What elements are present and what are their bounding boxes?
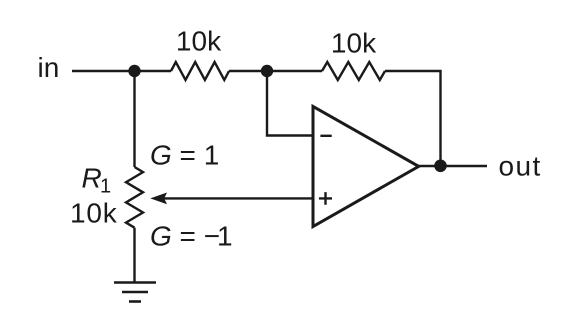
svg-text:G = −1: G = −1 — [150, 221, 233, 252]
output node — [434, 160, 447, 173]
wire: in to node A — [72, 70, 135, 72]
resistor 10k (feedback) — [322, 62, 385, 80]
wire: resistor to node B — [229, 70, 267, 72]
wire: op-amp output to out — [419, 165, 487, 167]
op-amp inverting pin minus sign — [320, 135, 331, 137]
op-amp U1 — [313, 106, 419, 226]
svg-text:in: in — [38, 52, 60, 83]
svg-text:R: R — [82, 162, 102, 193]
wire: potentiometer bottom to ground — [133, 228, 135, 283]
wire: feedback resistor to output node (top right corner) — [385, 71, 441, 166]
node A (input junction) — [128, 65, 140, 77]
wire: wiper to non-inverting input — [164, 197, 313, 199]
wire: node B to feedback resistor — [267, 70, 322, 72]
svg-text:1: 1 — [100, 176, 111, 198]
ground — [114, 283, 156, 302]
wire: node A to resistor 10k (input) — [135, 70, 172, 72]
potentiometer R1 body (vertical zigzag) — [126, 167, 143, 228]
node B (summing junction) — [261, 65, 273, 77]
wire: node A down to potentiometer R1 — [133, 71, 135, 167]
svg-text:10k: 10k — [176, 26, 222, 57]
svg-text:G = 1: G = 1 — [150, 140, 219, 171]
resistor 10k (input series) — [171, 62, 229, 80]
potentiometer wiper arrow — [150, 193, 167, 205]
svg-text:10k: 10k — [331, 28, 377, 59]
op-amp non-inverting pin plus sign — [319, 192, 332, 205]
svg-text:out: out — [499, 150, 542, 181]
svg-text:10k: 10k — [70, 198, 118, 229]
wire: node B down to inverting input — [267, 71, 313, 136]
